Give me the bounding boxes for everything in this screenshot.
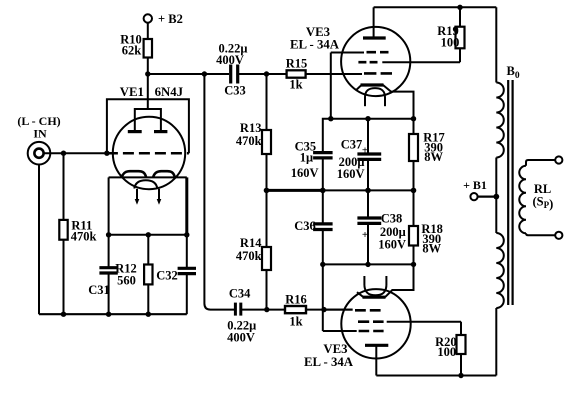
resistor R14 470k: [236, 190, 271, 309]
svg-text:8W: 8W: [422, 242, 441, 256]
VE3 bottom g2 row: [358, 320, 384, 323]
terminal secondary bottom: [555, 232, 562, 239]
VE1 cathode left: [122, 171, 146, 177]
VE3 bottom anode: [365, 344, 388, 347]
VE1 grid box: [107, 99, 189, 153]
VE1 cathode right: [153, 171, 175, 177]
svg-text:1k: 1k: [289, 314, 302, 328]
VE1 anode bridge: [135, 109, 161, 131]
capacitor C36: [294, 190, 332, 264]
capacitor C32: [156, 235, 196, 314]
wire coupling column down to C34: [204, 74, 234, 310]
resistor R17 390 8W: [409, 119, 445, 191]
svg-text:100: 100: [441, 36, 460, 50]
resistor R18 390 8W: [409, 190, 443, 264]
svg-text:1μ: 1μ: [300, 151, 313, 165]
pentode VE3 top envelope: [341, 27, 410, 96]
svg-text:VE3: VE3: [323, 342, 347, 356]
svg-text:R15: R15: [286, 57, 308, 71]
bottom plate wire: [376, 375, 496, 377]
svg-text:160V: 160V: [337, 167, 365, 181]
wire jack ground drop: [38, 164, 40, 314]
transformer primary bottom lead: [495, 308, 497, 376]
svg-text:C38: C38: [381, 212, 403, 226]
top cathode node line: [323, 119, 331, 152]
svg-text:EL - 34A: EL - 34A: [290, 38, 340, 52]
svg-text:160V: 160V: [291, 166, 319, 180]
node R11 top: [61, 151, 66, 156]
resistor R15 1k: [267, 57, 363, 92]
svg-text:C36: C36: [294, 219, 316, 233]
svg-text:1k: 1k: [289, 78, 302, 92]
VE3 top g2 row: [358, 61, 377, 64]
input jack (L-CH) IN: [17, 114, 60, 165]
node C33 out: [264, 71, 269, 76]
VE3 bottom cathode: [363, 296, 386, 299]
transformer primary mid lead: [495, 158, 497, 234]
node R10 anode junction: [145, 71, 150, 76]
VE1 cathode box left edge: [108, 177, 110, 234]
svg-text:C32: C32: [156, 268, 178, 282]
transformer primary bottom winding: [496, 233, 504, 308]
VE1 anode plates: [128, 130, 142, 133]
VE1 heater leg right with arrow: [158, 189, 160, 200]
svg-text:R14: R14: [240, 236, 262, 250]
VE1 grid dashed line: [107, 152, 189, 155]
wire g3 vertical top tube: [330, 53, 332, 119]
transformer core: [507, 80, 509, 305]
top plate wire: [374, 6, 497, 8]
svg-text:400V: 400V: [216, 53, 244, 67]
wire input to VE1 grid: [44, 152, 107, 154]
resistor R10 62k: [120, 33, 152, 75]
node VE1 grid input: [104, 151, 109, 156]
secondary top lead: [526, 160, 555, 166]
svg-text:8W: 8W: [424, 150, 443, 164]
svg-text:6N4J: 6N4J: [155, 85, 184, 99]
svg-text:IN: IN: [33, 127, 47, 141]
svg-text:560: 560: [117, 273, 136, 287]
resistor R16 1k: [267, 293, 353, 329]
node g1/g3 crossing bottom: [321, 307, 326, 312]
terminal +B2: [144, 12, 183, 39]
capacitor C38 200u 160V electrolytic: [357, 190, 406, 264]
VE3 top heater: [365, 88, 385, 96]
VE1 heater leg left with arrow: [136, 189, 138, 200]
svg-text:VE1: VE1: [120, 85, 144, 99]
VE3 top cathode: [361, 83, 384, 86]
VE3 bottom g1 row: [324, 309, 353, 311]
terminal secondary top: [555, 156, 562, 163]
VE3 top g3 row: [331, 52, 364, 54]
mid bus line: [267, 189, 323, 192]
VE1 cathode box right edge: [185, 177, 188, 234]
svg-text:160V: 160V: [378, 237, 406, 251]
svg-text:EL - 34A: EL - 34A: [304, 355, 354, 369]
secondary winding: [519, 166, 526, 234]
svg-text:62k: 62k: [122, 44, 142, 58]
secondary bottom lead: [526, 233, 555, 235]
wire g3 vertical bottom tube: [322, 264, 324, 331]
transformer primary top winding: [496, 83, 504, 158]
VE1 cathode box top chord: [109, 176, 187, 178]
VE3 top g1 row: [364, 72, 392, 75]
svg-text:100: 100: [437, 345, 456, 359]
resistor R11 470k: [59, 153, 96, 314]
wire VE1 anode stem: [147, 74, 149, 110]
resistor R19 100: [437, 7, 464, 62]
triode VE1 envelope: [113, 117, 185, 189]
capacitor C37 200u 160V electrolytic: [337, 119, 381, 191]
resistor R20 100: [435, 322, 465, 376]
resistor R13 470k: [236, 74, 271, 190]
svg-text:C31: C31: [88, 283, 110, 297]
capacitor C31: [88, 235, 118, 314]
node at 204: [202, 71, 207, 76]
bottom cathode node line: [323, 263, 414, 265]
svg-text:R16: R16: [285, 293, 307, 307]
capacitor C34 0.22u 400V: [227, 287, 267, 345]
resistor R12 560: [115, 235, 152, 314]
svg-text:400V: 400V: [227, 330, 255, 344]
svg-text:C33: C33: [224, 83, 246, 97]
svg-text:C37: C37: [341, 138, 363, 152]
pentode VE3 bottom envelope: [341, 289, 410, 358]
ground bus: [39, 313, 187, 315]
svg-text:+ B1: + B1: [463, 178, 487, 192]
svg-text:+ B2: + B2: [158, 12, 183, 26]
svg-text:C34: C34: [229, 287, 251, 301]
capacitor C35 1u 160V: [291, 139, 333, 190]
terminal +B1: [463, 178, 496, 200]
VE1 heater arc: [134, 180, 157, 188]
svg-text:+: +: [362, 229, 368, 241]
transformer primary top lead: [495, 7, 497, 82]
VE3 bottom g3 row: [323, 330, 357, 332]
capacitor C33 0.22u 400V: [216, 41, 266, 97]
svg-text:R13: R13: [240, 121, 262, 135]
svg-text:470k: 470k: [236, 134, 262, 148]
VE3 bottom heater: [364, 286, 386, 296]
VE1 cathode bottom bus: [109, 234, 187, 236]
wire anode junction to C33: [148, 73, 229, 75]
VE3 top anode: [373, 7, 375, 38]
node C34 out: [264, 307, 269, 312]
svg-text:470k: 470k: [71, 230, 97, 244]
svg-text:470k: 470k: [236, 249, 262, 263]
node B1 tap: [493, 194, 499, 200]
